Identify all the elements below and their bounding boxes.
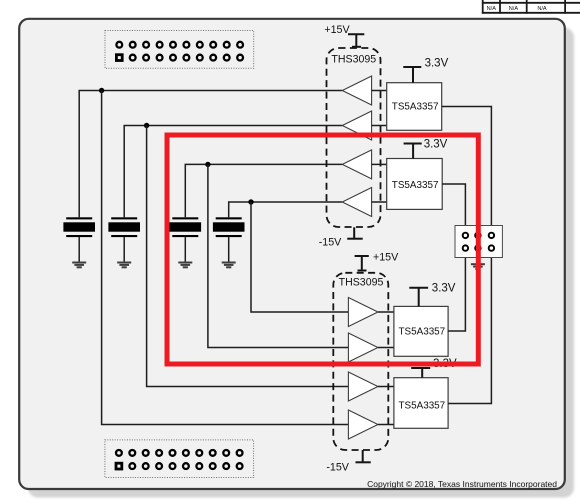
power +15V (lower) <box>355 256 369 271</box>
label +15V (upper) <box>324 24 350 36</box>
wire net2 drop to lower amp C <box>147 126 349 387</box>
amp U4A (points right) <box>348 298 378 327</box>
switch U6 TS5A3357 (lower 2) <box>394 378 448 429</box>
svg-text:+15V: +15V <box>373 251 399 263</box>
wire U5 output to P3 <box>448 248 465 331</box>
svg-text:TS5A3357: TS5A3357 <box>399 326 446 337</box>
wire net3 horizontal (to U1 amp C) <box>185 164 342 217</box>
node net1 junction <box>99 88 104 93</box>
ground under P3 <box>471 263 485 270</box>
wire net1 horizontal (to U1 amp A) <box>79 91 342 218</box>
label 3.3V for U5 <box>432 283 456 295</box>
label +15V (lower) <box>373 251 399 263</box>
label -15V (upper) <box>319 237 342 249</box>
label U1 THS3095 <box>331 53 376 65</box>
amp U1D (points left) <box>342 188 371 217</box>
connector J2 (bottom 2x10 header, dotted outline) <box>105 440 254 478</box>
svg-text:3.3V: 3.3V <box>424 139 448 151</box>
wire U1C output stub <box>372 163 387 165</box>
op-amp U4 dashed outline THS3095 (lower) <box>333 273 388 450</box>
label 3.3V for U6 (mostly hidden by red highlight) <box>433 358 457 370</box>
power 3.3V for U6 <box>411 368 430 378</box>
label 3.3V for U3 <box>424 139 448 151</box>
connector J2 pin 1 (square) <box>116 463 122 469</box>
wire U6 output to P3 <box>448 248 491 403</box>
wire net3 drop to lower amp B <box>208 164 349 347</box>
op-amp U1 dashed outline THS3095 (upper) <box>327 48 381 227</box>
svg-text:3.3V: 3.3V <box>432 283 456 295</box>
wire U4B output stub <box>378 347 394 349</box>
node net3 junction <box>205 162 210 167</box>
amp U1A (points left) <box>342 76 371 105</box>
switch U3 TS5A3357 (upper 2) <box>387 159 443 210</box>
power -15V (upper) <box>347 227 363 238</box>
amp U4D (points right) <box>348 410 378 439</box>
node net4 junction <box>248 199 253 204</box>
svg-text:Copyright © 2018, Texas Instru: Copyright © 2018, Texas Instruments Inco… <box>367 479 557 489</box>
node net2 junction <box>144 123 149 128</box>
label 3.3V for U2 <box>425 58 449 70</box>
svg-text:+15V: +15V <box>324 24 350 36</box>
label U3 TS5A3357 <box>392 180 439 191</box>
power -15V (lower) <box>356 450 371 462</box>
svg-text:TS5A3357: TS5A3357 <box>399 401 446 412</box>
wire U1D output stub <box>372 201 387 203</box>
connector P3 pins <box>463 233 494 251</box>
svg-text:TS5A3357: TS5A3357 <box>392 102 439 113</box>
title block N/A cells <box>487 6 547 12</box>
svg-text:-15V: -15V <box>319 237 342 249</box>
wire net1 drop to lower amp D <box>102 91 349 425</box>
ground under C1 <box>72 262 86 269</box>
ground under C4 <box>222 262 236 269</box>
wire U2 output to P3 <box>442 107 492 236</box>
copyright note <box>367 479 557 489</box>
connector J1 pins <box>116 42 243 61</box>
svg-text:3.3V: 3.3V <box>425 58 449 70</box>
wire U3 output to P3 <box>442 184 465 235</box>
wire U4A output stub <box>378 311 394 313</box>
power 3.3V for U3 <box>404 144 422 159</box>
wire net4 drop to lower amp A <box>251 202 348 312</box>
svg-text:THS3095: THS3095 <box>331 53 376 65</box>
svg-text:N/A: N/A <box>487 6 497 12</box>
connector P3 (2x3 jumper block) <box>455 226 502 258</box>
capacitor C3 <box>170 217 202 261</box>
ground under C2 <box>117 262 131 269</box>
wire net4 horizontal (to U1 amp D) <box>229 202 343 217</box>
label -15V (lower) <box>326 461 349 473</box>
label U6 TS5A3357 <box>399 401 446 412</box>
wire U4D output stub <box>378 424 394 426</box>
ground under C3 <box>178 262 192 269</box>
label U4 THS3095 <box>339 277 384 289</box>
svg-text:TS5A3357: TS5A3357 <box>392 180 439 191</box>
amp U4B (points right) <box>348 333 378 362</box>
svg-text:THS3095: THS3095 <box>339 277 384 289</box>
power 3.3V for U2 <box>403 67 421 83</box>
svg-text:N/A: N/A <box>537 6 547 12</box>
connector J1 (top 2x10 header, dotted outline) <box>105 31 254 69</box>
label U2 TS5A3357 <box>392 102 439 113</box>
svg-text:-15V: -15V <box>326 461 349 473</box>
capacitor C1 <box>63 217 95 261</box>
amp U1B (points left) <box>342 111 371 140</box>
switch U2 TS5A3357 (upper 1) <box>387 83 442 131</box>
amp U1C (points left) <box>342 150 371 179</box>
wire U4C output stub <box>378 386 394 388</box>
amp U4C (points right) <box>348 372 378 401</box>
capacitor C4 <box>213 217 245 261</box>
red highlight box <box>167 135 478 364</box>
wire P3 center pin to ground <box>477 248 479 263</box>
power +15V (upper) <box>348 34 364 47</box>
switch U5 TS5A3357 (lower 1) <box>394 306 448 356</box>
connector J2 pins <box>116 450 243 469</box>
wire U1A output stub <box>372 90 387 92</box>
capacitor C2 <box>108 217 140 261</box>
power 3.3V for U5 <box>409 288 428 307</box>
title block table (top right, cropped) <box>482 0 580 14</box>
wire net2 horizontal (to U1 amp B) <box>124 126 342 218</box>
wire U1B output stub <box>372 125 387 127</box>
connector J1 pin 1 (square) <box>116 55 122 61</box>
label U5 TS5A3357 <box>399 326 446 337</box>
svg-text:N/A: N/A <box>509 6 519 12</box>
